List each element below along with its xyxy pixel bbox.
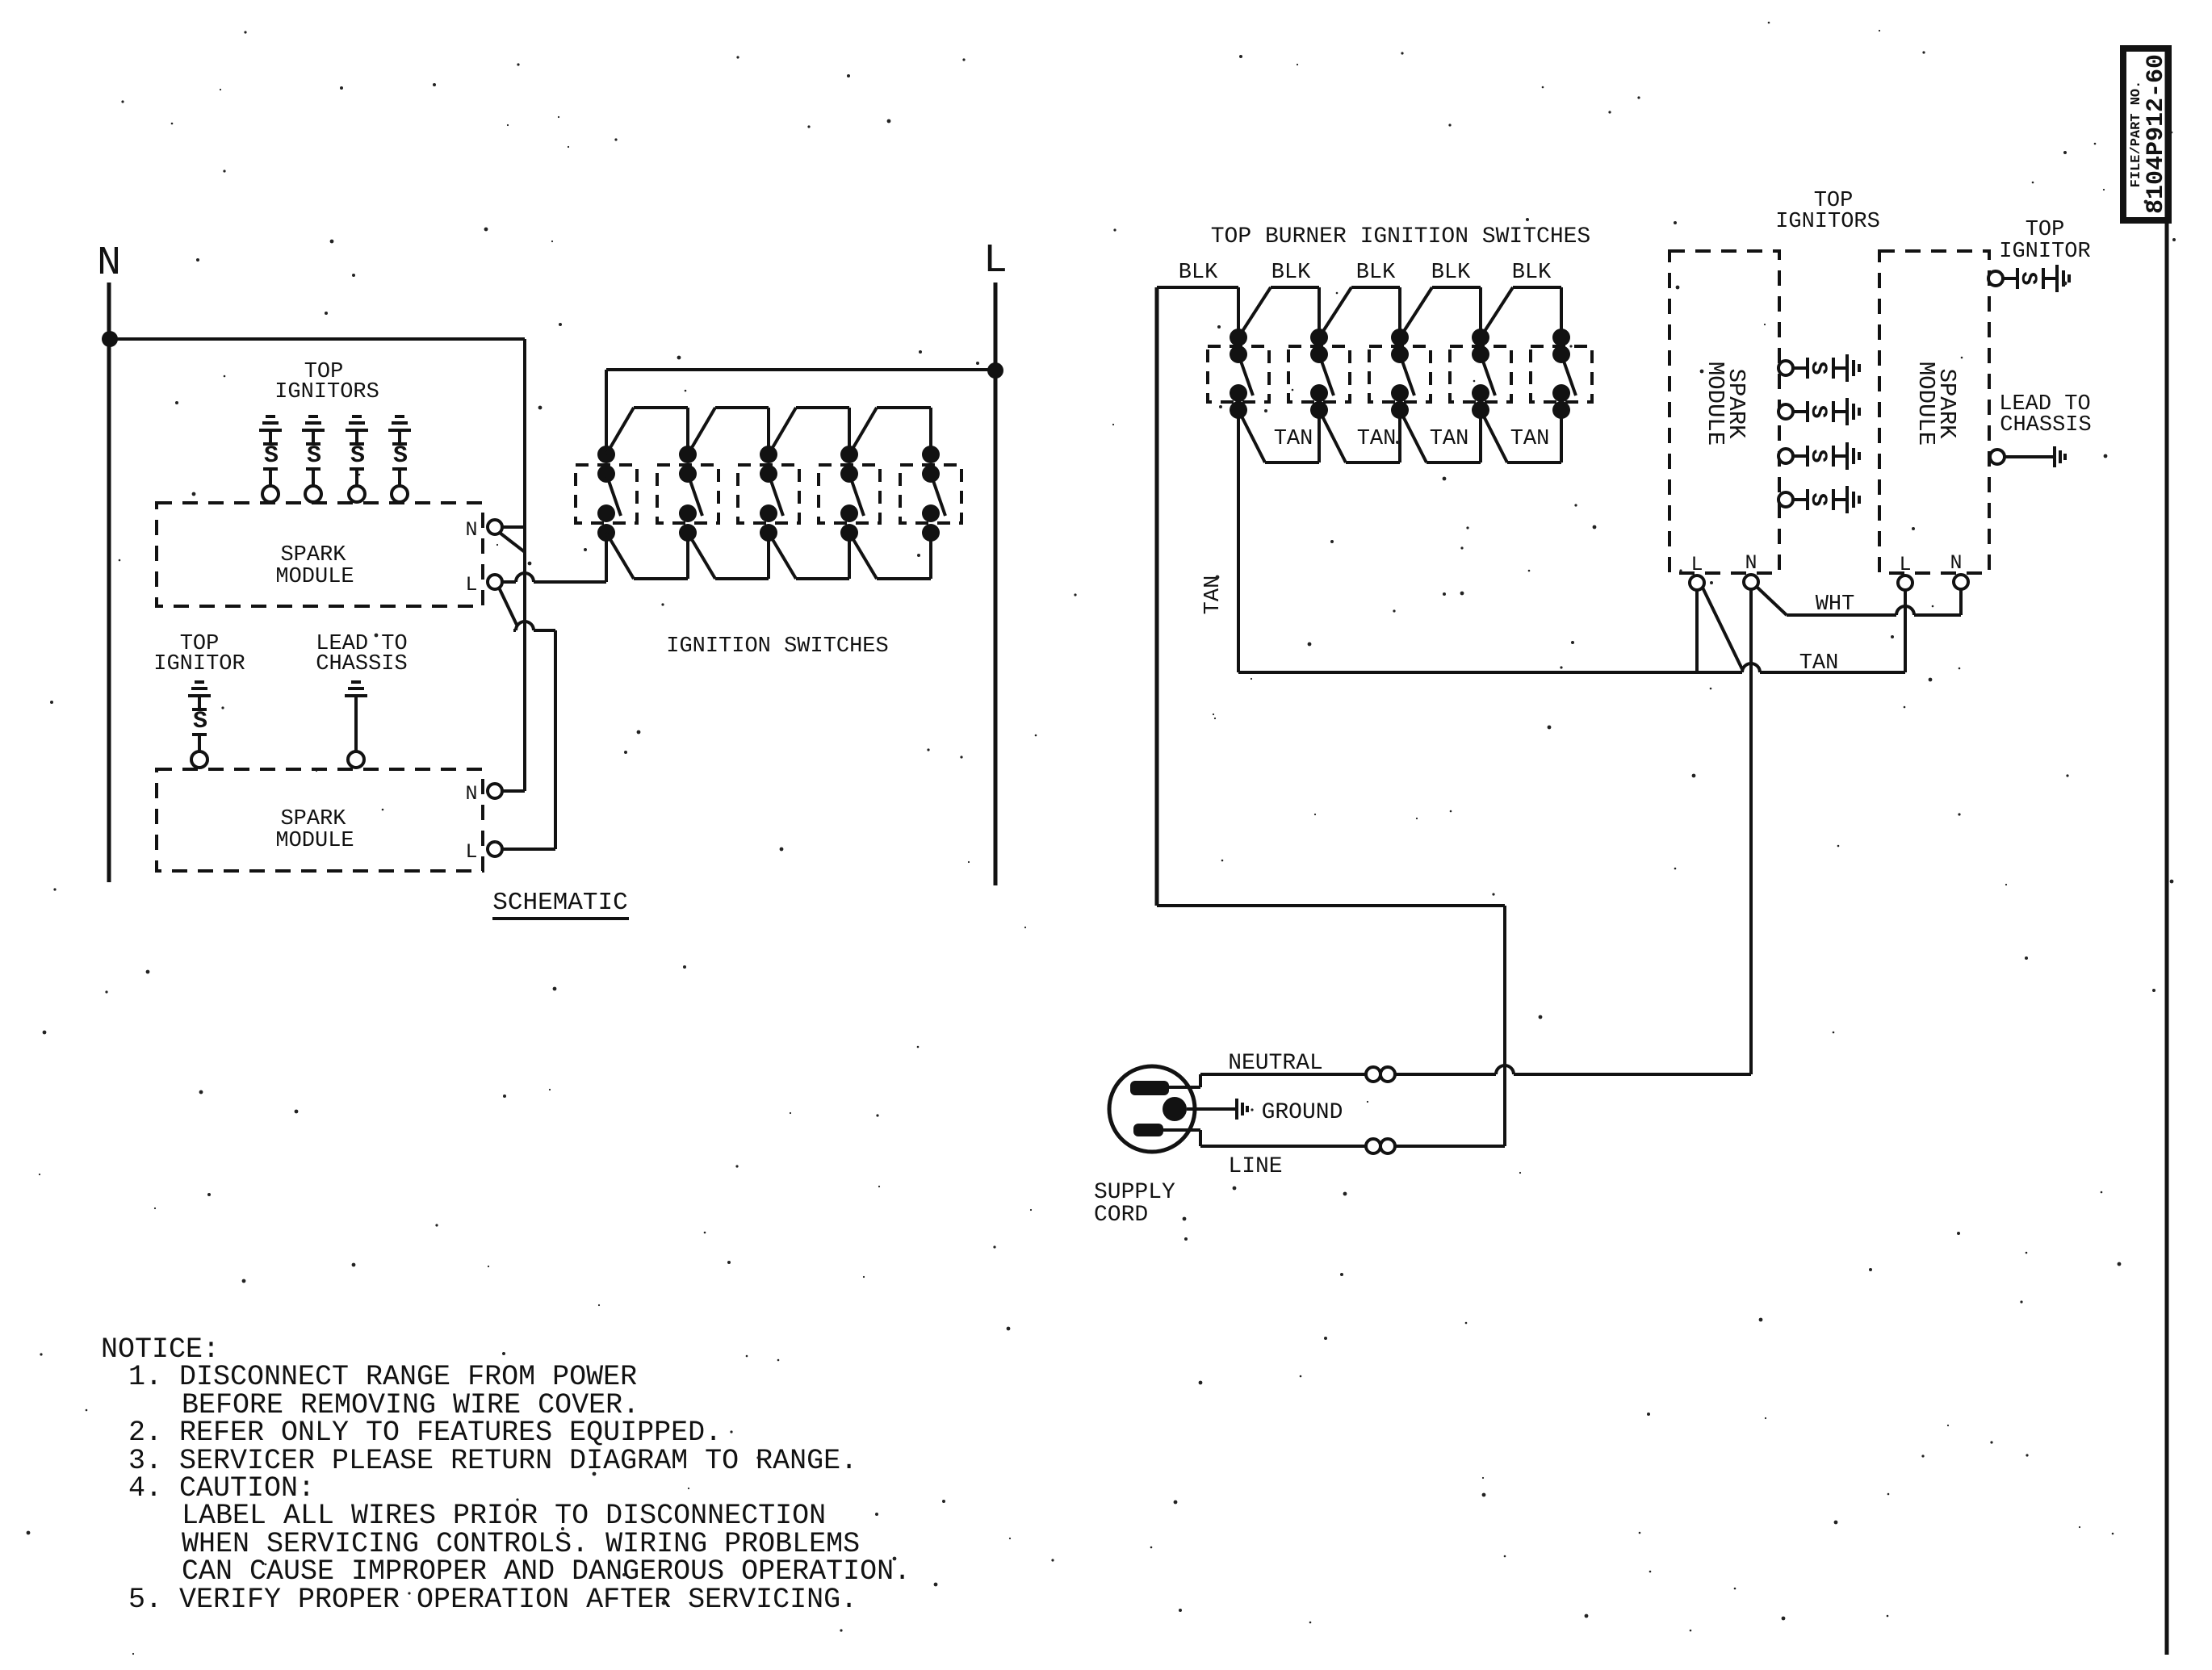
label LINE	[1228, 1154, 1282, 1179]
wire TAN bus to spark module L pins (hop over neutral riser)	[1238, 590, 1905, 672]
pin N of U1	[465, 518, 525, 542]
pin N of U4	[1950, 551, 1968, 589]
wire S3 to S4 top chain	[769, 408, 849, 454]
wire NEUTRAL: plug to neutral riser (hop over line riser)	[1169, 1065, 1751, 1087]
top ignitor lead of U4 (spark gap symbol)	[1988, 265, 2069, 292]
svg-text:S: S	[264, 442, 279, 470]
label TAN wire 4	[1510, 427, 1550, 451]
file/part number box	[2123, 48, 2168, 220]
wire S1 to S2 bottom chain	[606, 533, 688, 579]
ignition switch S2 (dashed box with contacts and blade)	[657, 446, 718, 542]
svg-text:1. DISCONNECT RANGE FROM POWER: 1. DISCONNECT RANGE FROM POWER	[128, 1361, 637, 1393]
label BLK wire 1	[1179, 261, 1218, 285]
top ignitor lead 1 of U3 (spark gap symbol)	[1778, 354, 1859, 382]
svg-text:L: L	[465, 840, 477, 864]
svg-text:S: S	[2015, 272, 2040, 286]
svg-text:S: S	[393, 442, 408, 470]
svg-text:S: S	[1805, 450, 1830, 463]
svg-text:N: N	[465, 518, 477, 542]
svg-text:N: N	[1745, 551, 1757, 575]
svg-text:BLK: BLK	[1356, 261, 1396, 285]
wire SW2 to SW3 bottom chain (TAN)	[1319, 410, 1400, 462]
svg-text:NEUTRAL: NEUTRAL	[1228, 1051, 1323, 1076]
svg-text:SPARK: SPARK	[280, 807, 346, 831]
label TAN (vertical)	[1201, 576, 1225, 615]
wire riser N rail to module N pins	[502, 339, 525, 791]
wire SW4 to SW5 top chain (BLK)	[1481, 287, 1561, 337]
junction on N rail	[102, 331, 118, 347]
svg-text:S: S	[1805, 405, 1830, 419]
node L (line rail label)	[983, 238, 1008, 284]
spark module U2 (dashed box)	[157, 769, 483, 871]
pin L of U2	[465, 840, 502, 864]
svg-text:S: S	[1805, 493, 1830, 507]
wire U1 L to ignition switches (hop over riser)	[502, 533, 606, 582]
wire SW3 to SW4 bottom chain (TAN)	[1400, 410, 1481, 462]
svg-text:L: L	[983, 238, 1008, 284]
top ignitor E5 (spark gap to ground)	[188, 682, 211, 768]
plug ground pin	[1163, 1097, 1187, 1121]
wire WHT: U3 N to U4 N (hop over U4 L drop)	[1757, 587, 1961, 615]
svg-text:MODULE: MODULE	[275, 829, 354, 853]
svg-text:IGNITION SWITCHES: IGNITION SWITCHES	[666, 634, 888, 659]
label TAN (bus)	[1799, 651, 1839, 676]
top ignitor lead 2 of U3 (spark gap symbol)	[1778, 398, 1859, 425]
svg-text:BLK: BLK	[1179, 261, 1218, 285]
svg-text:BLK: BLK	[1271, 261, 1311, 285]
svg-text:GROUND: GROUND	[1262, 1100, 1343, 1125]
lead to chassis (ground lead)	[345, 682, 367, 768]
label TOP IGNITOR	[153, 632, 245, 676]
svg-text:BLK: BLK	[1431, 261, 1471, 285]
label BLK wire 2	[1271, 261, 1311, 285]
label TOP BURNER IGNITION SWITCHES	[1211, 224, 1590, 249]
svg-text:2. REFER ONLY TO FEATURES EQUI: 2. REFER ONLY TO FEATURES EQUIPPED.	[128, 1417, 722, 1449]
ignition switch S4 (dashed box with contacts and blade)	[819, 446, 880, 542]
svg-text:N: N	[97, 241, 121, 287]
label TAN wire 2	[1357, 427, 1397, 451]
wire N rail	[107, 283, 111, 882]
svg-text:IGNITOR: IGNITOR	[153, 652, 245, 676]
svg-text:CORD: CORD	[1094, 1203, 1148, 1228]
label LEAD TO CHASSIS (right)	[1999, 392, 2091, 437]
label SPARK MODULE U4 (rotated)	[1912, 362, 1960, 446]
wire U1 L blade to U2 L (hop over riser)	[502, 622, 555, 849]
label IGNITION SWITCHES	[666, 634, 888, 659]
wire SW1 down to TAN bus	[1237, 410, 1240, 672]
pin L of U1	[465, 573, 502, 596]
page right border line	[2165, 52, 2169, 1655]
svg-text:L: L	[1899, 553, 1911, 576]
svg-text:CHASSIS: CHASSIS	[2000, 413, 2091, 437]
label TOP IGNITOR (right)	[1999, 218, 2090, 264]
top ignitor lead 3 of U3 (spark gap symbol)	[1778, 442, 1859, 470]
label WHT	[1816, 592, 1855, 617]
pin N of U3	[1744, 551, 1758, 589]
svg-text:L: L	[465, 573, 477, 596]
svg-text:SCHEMATIC: SCHEMATIC	[492, 889, 627, 917]
lead to chassis of U4	[1990, 446, 2065, 467]
wire left rail (BLK)	[1155, 287, 1159, 906]
switch blade from U1 pin L	[499, 588, 517, 625]
svg-text:S: S	[193, 708, 207, 735]
svg-text:TAN: TAN	[1274, 427, 1313, 451]
wire SW4 to SW5 bottom chain (TAN)	[1481, 410, 1561, 462]
svg-text:TOP BURNER IGNITION SWITCHES: TOP BURNER IGNITION SWITCHES	[1211, 224, 1590, 249]
wire N rail to spark modules top	[110, 337, 525, 341]
pin L of U3	[1690, 553, 1704, 590]
top burner ignition switch SW1 (dashed box with contacts and blade)	[1208, 329, 1269, 419]
label BLK wire 5	[1512, 261, 1552, 285]
svg-text:TOP: TOP	[2026, 218, 2065, 242]
connector pair on neutral wire	[1366, 1067, 1395, 1082]
top burner ignition switch SW5 (dashed box with contacts and blade)	[1531, 329, 1592, 419]
top ignitor E4 (spark gap to ground)	[388, 416, 411, 502]
ignition switch S3 (dashed box with contacts and blade)	[738, 446, 799, 542]
svg-text:IGNITOR: IGNITOR	[1999, 240, 2090, 264]
switch blade from U3 pin L	[1703, 588, 1742, 669]
connector pair on line wire	[1366, 1139, 1395, 1153]
svg-text:CAN CAUSE IMPROPER AND DANGERO: CAN CAUSE IMPROPER AND DANGEROUS OPERATI…	[182, 1555, 911, 1588]
wire SW1 to SW2 bottom chain (TAN)	[1238, 410, 1319, 462]
wire S3 to S4 bottom chain	[769, 533, 849, 579]
wire SW3 to SW4 top chain (BLK)	[1400, 287, 1481, 337]
wire U3 pin L drop to TAN bus	[1695, 590, 1699, 672]
wire L rail	[994, 283, 998, 885]
label BLK wire 3	[1356, 261, 1396, 285]
svg-text:N: N	[465, 782, 477, 806]
svg-text:IGNITORS: IGNITORS	[274, 380, 379, 404]
svg-text:TAN: TAN	[1357, 427, 1397, 451]
wire S4 to S5 top chain	[849, 408, 931, 454]
svg-text:MODULE: MODULE	[275, 565, 354, 589]
label BLK wire 4	[1431, 261, 1471, 285]
label SPARK MODULE U2	[275, 807, 354, 853]
label SPARK MODULE U3 (rotated)	[1702, 362, 1749, 446]
svg-text:LINE: LINE	[1228, 1154, 1282, 1179]
junction on L rail	[987, 362, 1003, 379]
svg-text:N: N	[1950, 551, 1962, 575]
wire GROUND lead from plug	[1187, 1099, 1247, 1120]
switch blade from U1 pin N	[500, 533, 525, 552]
ignition switch S5 (dashed box with contacts and blade)	[900, 446, 961, 542]
svg-text:L: L	[1690, 553, 1703, 576]
svg-text:CHASSIS: CHASSIS	[316, 652, 407, 676]
label TAN wire 3	[1430, 427, 1469, 451]
label SPARK MODULE U1	[275, 543, 354, 589]
top ignitor E3 (spark gap to ground)	[346, 416, 368, 502]
wire L rail to ignition switch bank top	[606, 370, 995, 454]
svg-text:WHT: WHT	[1816, 592, 1855, 617]
pin L of U4	[1898, 553, 1912, 590]
wire neutral riser: U3 N down to supply neutral	[1749, 589, 1753, 1074]
wire SW2 to SW3 top chain (BLK)	[1319, 287, 1400, 337]
svg-text:LABEL ALL WIRES PRIOR TO DISCO: LABEL ALL WIRES PRIOR TO DISCONNECTION	[182, 1500, 826, 1532]
svg-text:BLK: BLK	[1512, 261, 1552, 285]
wire S4 to S5 bottom chain	[849, 533, 931, 579]
svg-text:5. VERIFY PROPER OPERATION AFT: 5. VERIFY PROPER OPERATION AFTER SERVICI…	[128, 1584, 857, 1616]
node N (neutral rail label)	[97, 241, 121, 287]
svg-text:S: S	[350, 442, 365, 470]
svg-text:SUPPLY: SUPPLY	[1094, 1180, 1175, 1205]
spark module U1 (dashed box)	[157, 503, 483, 606]
top ignitor lead 4 of U3 (spark gap symbol)	[1778, 486, 1859, 513]
label TOP IGNITORS (right)	[1775, 189, 1880, 234]
svg-text:MODULE: MODULE	[1912, 362, 1939, 446]
wire SW1 to SW2 top chain (BLK)	[1238, 287, 1319, 337]
svg-text:TAN: TAN	[1430, 427, 1469, 451]
supply cord plug body	[1109, 1066, 1195, 1152]
label TOP IGNITORS	[274, 360, 379, 404]
label TAN wire 1	[1274, 427, 1313, 451]
svg-text:TAN: TAN	[1510, 427, 1550, 451]
svg-text:S: S	[307, 442, 321, 470]
wire S2 to S3 bottom chain	[688, 533, 769, 579]
label SUPPLY CORD	[1094, 1180, 1175, 1228]
spark module U4 (dashed box)	[1879, 251, 1989, 573]
svg-text:SPARK: SPARK	[280, 543, 346, 567]
plug line prong	[1133, 1124, 1163, 1136]
label FILE/PART NO. 8104P912-60 (rotated)	[2129, 54, 2170, 214]
wire LINE: plug to line riser	[1157, 906, 1505, 1146]
svg-text:TAN: TAN	[1201, 576, 1225, 615]
pin N of U2	[465, 782, 502, 806]
top burner ignition switch SW4 (dashed box with contacts and blade)	[1450, 329, 1511, 419]
wire rail to burner switch SW1	[1157, 287, 1238, 337]
label GROUND	[1262, 1100, 1343, 1125]
top burner ignition switch SW3 (dashed box with contacts and blade)	[1369, 329, 1431, 419]
label SCHEMATIC (underlined)	[492, 889, 629, 919]
wire U4 L drop (crossed by WHT and TAN joins)	[1904, 590, 1907, 615]
wire S2 to S3 top chain	[688, 408, 769, 454]
ignition switch S1 (dashed box with contacts and blade)	[576, 446, 637, 542]
svg-text:IGNITORS: IGNITORS	[1775, 210, 1880, 234]
top ignitor E2 (spark gap to ground)	[302, 416, 325, 502]
label NEUTRAL	[1228, 1051, 1323, 1076]
wire S1 to S2 top chain	[606, 408, 688, 454]
label LEAD TO CHASSIS	[316, 632, 407, 676]
svg-text:TAN: TAN	[1799, 651, 1839, 676]
top ignitor E1 (spark gap to ground)	[259, 416, 282, 502]
spark module U3 (dashed box)	[1669, 251, 1779, 573]
top burner ignition switch SW2 (dashed box with contacts and blade)	[1288, 329, 1350, 419]
svg-text:S: S	[1805, 362, 1830, 375]
notice text block	[101, 1333, 911, 1616]
svg-text:MODULE: MODULE	[1702, 362, 1728, 446]
plug neutral prong	[1130, 1081, 1169, 1095]
